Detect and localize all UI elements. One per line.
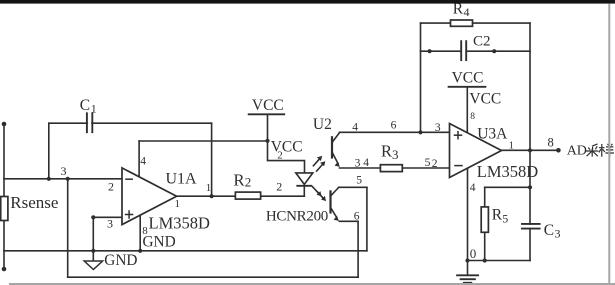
- wire: R4 feedback top horizontal: [421, 22, 531, 24]
- node: AD output terminal: [556, 148, 561, 153]
- wire: R5 bottom lead: [484, 232, 486, 260]
- wire: PD1 emitter to R3: [340, 167, 381, 169]
- svg-text:1: 1: [206, 182, 212, 194]
- wire: U3A pin 4 stub down to ground node 0: [467, 169, 469, 261]
- glyph 样 (hand drawn): [599, 144, 614, 157]
- junction: C2 wire right: [492, 49, 496, 53]
- junction: bottom loop / node 3: [66, 177, 70, 181]
- resistor R2: [235, 192, 260, 199]
- svg-text:AD: AD: [567, 144, 587, 159]
- glyph 采 (hand drawn): [586, 144, 598, 157]
- power symbol VCC (U1A supply): [249, 113, 285, 115]
- svg-text:2: 2: [245, 175, 252, 190]
- svg-text:Rsense: Rsense: [10, 193, 58, 212]
- wire: C2 horizontal left segment: [421, 50, 461, 52]
- svg-text:2: 2: [277, 150, 283, 162]
- resistor R4: [451, 20, 473, 26]
- junction: C1 left / node 3: [47, 177, 51, 181]
- svg-text:2: 2: [276, 180, 282, 194]
- svg-text:3: 3: [107, 217, 113, 231]
- svg-text:VCC: VCC: [271, 139, 303, 156]
- wire: U1A pin 8 stub to ground rail: [139, 215, 141, 251]
- wire: bottom node wire R5/C3: [468, 260, 531, 262]
- ground symbol earth (U3A ground): [457, 275, 478, 283]
- border frame: [0, 0, 615, 4]
- wire: PD1 collector net 6 horizontal to U3A non-inverting input: [340, 131, 450, 133]
- wire: HCNR200 pin 6 horizontal: [339, 220, 358, 222]
- wire: non-inverting input drop to ground rail: [92, 217, 94, 251]
- svg-text:6: 6: [354, 211, 360, 223]
- wire: right feedback vertical upper (R4/C2 to output, C3 top): [529, 23, 531, 224]
- optocoupler U2 photodiode PD2: [331, 188, 339, 221]
- junction: GND rail: [91, 249, 95, 253]
- wire: VCC drop to LED anode: [268, 114, 305, 173]
- junction: output node / feedback vertical: [528, 148, 532, 152]
- junction: pin 4 / ground node 0: [465, 258, 469, 262]
- wire: U1A pin 4 horizontal to VCC: [139, 140, 267, 142]
- node: left terminal top: [2, 122, 7, 127]
- junction: R5 bottom: [483, 258, 487, 262]
- svg-text:LM358D: LM358D: [149, 214, 211, 233]
- power symbol VCC (U3A supply): [449, 86, 486, 88]
- svg-text:VCC: VCC: [469, 91, 501, 108]
- wire: bottom feedback loop horizontal to HCNR200 pin 6: [68, 276, 358, 278]
- light arrow 2 (to PD1): [317, 161, 326, 171]
- light arrow 4 (to PD2): [317, 192, 326, 202]
- svg-text:R: R: [234, 171, 245, 190]
- svg-text:HCNR200: HCNR200: [266, 209, 328, 225]
- svg-text:0: 0: [470, 246, 477, 261]
- svg-text:4: 4: [470, 182, 476, 194]
- svg-text:4: 4: [363, 157, 369, 169]
- svg-text:C: C: [544, 222, 554, 239]
- wire: R2 to LED cathode: [261, 195, 305, 197]
- svg-text:U3A: U3A: [477, 125, 508, 142]
- svg-text:6: 6: [391, 119, 397, 131]
- op-amp U1A: [122, 168, 177, 225]
- wire: U1A non-inverting input horizontal: [93, 216, 122, 218]
- junction: R5 tee on feedback vertical: [528, 185, 532, 189]
- svg-text:GND: GND: [143, 234, 176, 251]
- svg-text:3: 3: [355, 158, 361, 170]
- svg-text:R: R: [381, 142, 392, 161]
- junction: C1 right / U1A output: [210, 194, 214, 198]
- svg-text:3: 3: [555, 227, 561, 241]
- svg-text:U2: U2: [313, 116, 332, 133]
- svg-text:LM358D: LM358D: [477, 162, 539, 181]
- wire: left input vertical (Rsense branch): [3, 124, 5, 269]
- svg-text:R: R: [492, 207, 503, 224]
- wire: earth ground stub: [467, 261, 469, 276]
- wire: U3A VCC pin 8 stub: [466, 87, 468, 133]
- wire: R4/C2 left vertical to U3A + input: [420, 23, 422, 132]
- capacitor C3: [522, 224, 540, 229]
- wire: node 3 horizontal (Rsense top to U1A inverting input): [4, 178, 122, 180]
- op-amp U3A: [450, 124, 502, 178]
- wire: ground rail horizontal: [4, 250, 367, 252]
- svg-text:5: 5: [425, 157, 431, 169]
- wire: C1 feedback top horizontal: [49, 122, 212, 124]
- svg-text:3: 3: [392, 147, 399, 162]
- junction: R4-C2 vertical / U3A + input: [418, 130, 422, 134]
- wire: R5/C3 top tee horizontal: [485, 186, 530, 188]
- wire: pin 5 drop to ground rail: [366, 187, 368, 251]
- svg-text:VCC: VCC: [452, 70, 484, 87]
- svg-text:8: 8: [548, 136, 554, 150]
- svg-text:1: 1: [91, 102, 97, 116]
- svg-text:3: 3: [61, 164, 67, 178]
- svg-text:C2: C2: [473, 34, 491, 50]
- ground symbol GND (signal ground, open triangle): [84, 251, 102, 270]
- capacitor C1: [87, 113, 92, 132]
- wire: C1 right vertical to U1A output: [211, 123, 213, 196]
- wire: C1 left vertical to node 3: [48, 123, 50, 179]
- svg-text:4: 4: [352, 121, 358, 133]
- junction: U1A pin 8 rail: [138, 249, 142, 253]
- svg-text:3: 3: [435, 122, 441, 134]
- resistor R3: [380, 165, 402, 172]
- junction: + input corner: [91, 215, 95, 219]
- svg-text:1: 1: [509, 140, 515, 152]
- wire: right feedback vertical lower (C3 bottom): [529, 229, 531, 261]
- wire: C2 horizontal right segment: [467, 50, 530, 52]
- svg-text:2: 2: [432, 158, 438, 170]
- wire: HCNR200 pin 5 horizontal: [339, 186, 367, 188]
- wire: node 3 drop to bottom feedback loop: [67, 179, 69, 277]
- wire: pin 6 drop to bottom feedback loop: [357, 221, 359, 277]
- svg-text:GND: GND: [104, 252, 137, 269]
- wire: R3 to U3A inverting input: [402, 167, 449, 169]
- junction: C2 wire left: [428, 49, 432, 53]
- node: left terminal bottom: [2, 267, 7, 272]
- wire: R5 top lead: [484, 187, 486, 207]
- junction: VCC / U1A pin4: [265, 139, 269, 143]
- svg-text:U1A: U1A: [166, 171, 198, 188]
- svg-text:VCC: VCC: [252, 97, 284, 114]
- resistor R5: [481, 207, 488, 232]
- wire: U3A output to AD node: [502, 149, 559, 151]
- wire: LED cathode drop to R2 net: [303, 186, 305, 196]
- svg-text:4: 4: [464, 5, 470, 19]
- optocoupler U2 LED: [296, 173, 313, 185]
- wire: U1A output to R2: [177, 195, 236, 197]
- svg-text:8: 8: [470, 112, 475, 122]
- svg-text:5: 5: [502, 212, 508, 226]
- light arrow 3 (to PD2): [313, 187, 322, 197]
- optocoupler U2 photodiode PD1: [332, 133, 340, 167]
- wire: U1A V+ pin 4 stub: [138, 141, 140, 177]
- svg-text:C: C: [80, 97, 90, 114]
- light arrow 1 (to PD1): [313, 156, 322, 166]
- svg-text:4: 4: [140, 156, 146, 168]
- svg-text:5: 5: [356, 175, 362, 187]
- svg-text:2: 2: [108, 180, 114, 194]
- capacitor C2: [461, 41, 466, 60]
- svg-text:1: 1: [175, 198, 181, 210]
- resistor Rsense: [1, 197, 8, 221]
